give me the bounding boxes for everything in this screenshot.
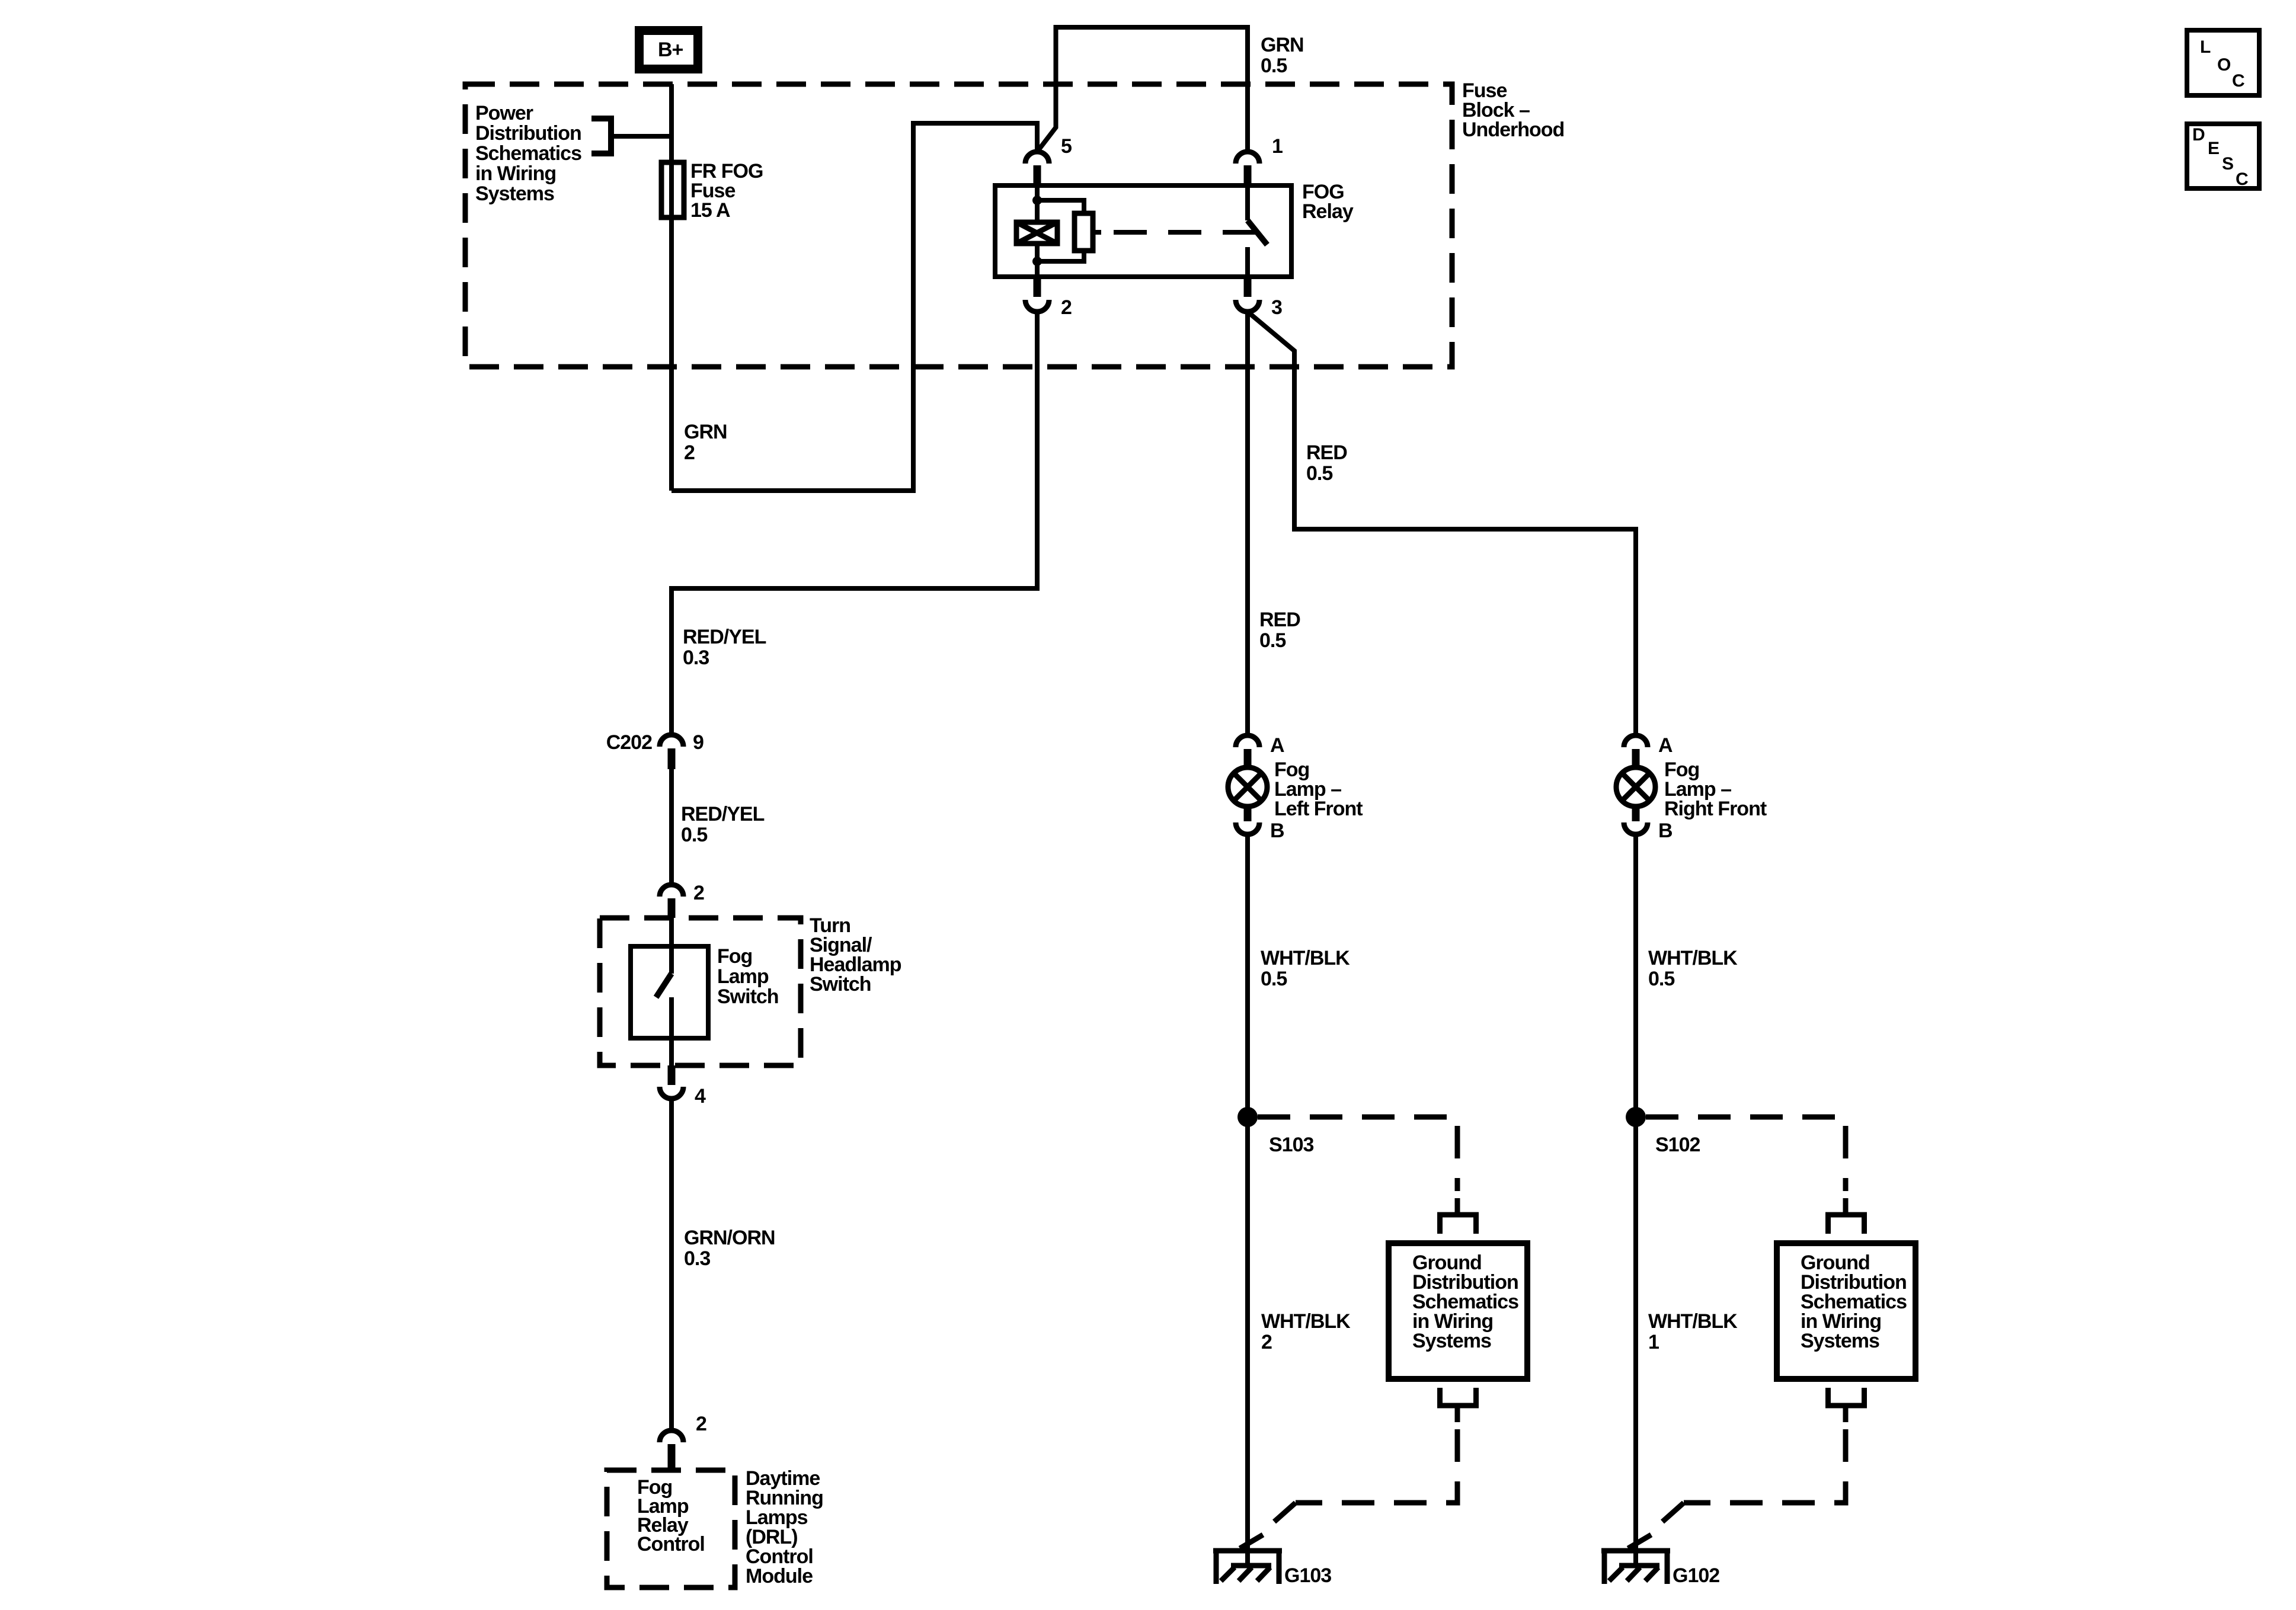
svg-text:C202: C202 [606,731,652,754]
svg-text:Left Front: Left Front [1274,798,1363,820]
wire S102 to ground G102 [1633,1117,1638,1566]
svg-text:Distribution: Distribution [475,122,581,145]
relay box FOG Relay [995,185,1291,277]
fuse FR FOG 15A [661,162,684,217]
pin 2 connector [1034,277,1041,297]
svg-text:GRN: GRN [1261,34,1304,56]
svg-text:0.5: 0.5 [681,824,707,846]
svg-text:0.3: 0.3 [683,646,709,669]
svg-text:1: 1 [1272,135,1283,158]
svg-text:Right Front: Right Front [1664,798,1767,820]
svg-text:Lamp: Lamp [717,965,769,988]
svg-text:GRN: GRN [684,421,727,443]
switch pin 4 connector [668,1065,676,1085]
svg-text:C: C [2232,71,2245,91]
svg-text:15 A: 15 A [690,199,730,222]
wire switch bottom contact (relay) [1245,247,1250,277]
fog lamp left front bulb [1228,767,1267,806]
svg-text:Module: Module [746,1565,813,1587]
wire coil bottom [1035,244,1040,277]
svg-text:2: 2 [696,1413,706,1435]
svg-text:GRN/ORN: GRN/ORN [684,1227,775,1249]
wire pin 4 to DRL module [669,1099,674,1430]
svg-text:O: O [2217,55,2231,75]
ground distribution box (right) [1777,1243,1916,1379]
svg-text:5: 5 [1061,135,1072,158]
dash segment bend (right) [1662,1503,1684,1522]
splice S103 [1237,1107,1258,1127]
wire resistor stub [1093,230,1101,235]
switch blade (fog lamp switch) [656,974,671,997]
wire resistor branch bottom [1037,251,1084,261]
svg-text:S: S [2222,154,2234,174]
svg-text:WHT/BLK: WHT/BLK [1648,947,1738,969]
svg-text:B: B [1270,820,1284,842]
wire switch top (relay) [1245,185,1250,220]
left fog lamp pin B connector [1236,822,1259,834]
svg-text:WHT/BLK: WHT/BLK [1261,947,1350,969]
svg-text:RED/YEL: RED/YEL [683,626,766,648]
wire resistor branch top [1037,200,1084,213]
dashed lead S102 to ground distribution [1646,1117,1846,1191]
svg-text:Systems: Systems [1412,1330,1491,1352]
svg-text:D: D [2192,125,2205,145]
wire B+ feed down through fuse [669,84,674,491]
svg-text:9: 9 [693,731,703,754]
wire switch bottom contact [669,997,674,1065]
wire C202 to switch pin 2 [669,769,674,885]
svg-text:Switch: Switch [717,985,779,1008]
LOC reference box [2187,30,2259,95]
svg-text:L: L [2200,37,2211,57]
bracket below right ground box [1825,1388,1867,1422]
wire right lamp B to splice S102 [1633,834,1638,1117]
dashed lead right ground box to G102 [1684,1429,1846,1503]
wire pin2 to C202 [671,312,1037,735]
wire pin3 to left fog lamp [1245,312,1250,735]
svg-text:2: 2 [1261,1331,1272,1353]
wire left lamp B to splice S103 [1245,834,1250,1117]
svg-text:0.5: 0.5 [1261,55,1287,77]
dashed actuator line [1114,230,1258,235]
svg-text:C: C [2236,169,2249,189]
svg-text:Systems: Systems [1801,1330,1879,1352]
svg-text:G102: G102 [1673,1564,1719,1587]
bracket above left ground box [1437,1198,1479,1234]
svg-text:RED: RED [1259,609,1300,631]
fog lamp switch box [631,946,708,1038]
DESC reference box [2187,124,2259,188]
svg-text:Relay: Relay [1302,200,1354,223]
svg-text:RED: RED [1306,441,1347,464]
svg-text:1: 1 [1648,1331,1659,1353]
pin 5 connector [1025,152,1049,164]
svg-text:B+: B+ [658,39,683,61]
pin 3 connector [1244,277,1252,297]
connector C202 [660,735,683,747]
svg-text:3: 3 [1271,296,1282,319]
power symbol B+ box [639,31,698,69]
switch blade (relay) [1248,220,1267,245]
dash segment crossing wire (left) [1240,1535,1263,1548]
splice S102 [1626,1107,1646,1127]
dashed box DRL control module [607,1470,735,1587]
svg-text:RED/YEL: RED/YEL [681,803,765,825]
right fog lamp pin A connector [1624,735,1648,747]
right fog lamp pin B connector [1624,822,1648,834]
resistor (relay) [1075,213,1093,251]
svg-text:2: 2 [684,441,695,464]
svg-text:Underhood: Underhood [1462,119,1564,141]
bracket to Power Distribution [591,116,611,156]
svg-text:Switch: Switch [810,973,871,996]
dashed lead S103 to ground distribution [1258,1117,1457,1191]
ground distribution box (left) [1389,1243,1527,1379]
svg-text:4: 4 [695,1085,706,1108]
svg-text:S102: S102 [1655,1134,1700,1156]
svg-text:0.3: 0.3 [684,1247,710,1270]
svg-text:0.5: 0.5 [1306,462,1332,485]
wire bracket to B+ feed [611,134,671,139]
bracket above right ground box [1825,1198,1867,1234]
bracket below left ground box [1437,1388,1479,1422]
switch pin 2 connector [660,885,683,897]
svg-text:Power: Power [475,102,533,124]
left fog lamp pin A connector [1236,735,1259,747]
svg-text:WHT/BLK: WHT/BLK [1261,1310,1351,1333]
svg-text:S103: S103 [1269,1134,1313,1156]
wire fuse to relay pin 5 [671,123,1037,491]
pin 1 connector [1236,152,1259,164]
svg-text:2: 2 [693,882,704,904]
dash segment crossing wire (right) [1628,1535,1651,1548]
ground G103 [1213,1548,1282,1584]
wire S103 to ground G103 [1245,1117,1250,1566]
svg-text:G103: G103 [1284,1564,1331,1587]
dashed lead left ground box to G103 [1296,1429,1457,1503]
node coil bottom junction [1032,257,1042,266]
fog lamp right front bulb [1616,767,1655,806]
svg-text:0.5: 0.5 [1261,968,1287,990]
wire pin3 to right fog lamp [1248,312,1636,735]
svg-text:WHT/BLK: WHT/BLK [1648,1310,1738,1333]
svg-text:Systems: Systems [475,183,554,205]
svg-text:E: E [2208,139,2220,158]
svg-text:2: 2 [1061,296,1072,319]
svg-text:Fog: Fog [717,945,752,968]
svg-text:0.5: 0.5 [1259,629,1285,652]
svg-text:in Wiring: in Wiring [475,162,556,185]
wire coil branch top [1035,185,1040,222]
dash segment bend (left) [1274,1503,1296,1522]
node coil top junction [1032,196,1042,205]
svg-text:A: A [1270,734,1284,757]
svg-text:0.5: 0.5 [1648,968,1674,990]
ground G102 [1601,1548,1670,1584]
wire GRN 0.5 jumper pin5 to pin1 [1037,27,1248,152]
dashed box Turn Signal/Headlamp Switch [600,918,801,1065]
svg-text:Schematics: Schematics [475,142,581,165]
svg-text:A: A [1658,734,1673,757]
coil (relay) crossed box [1016,222,1057,244]
svg-text:B: B [1658,820,1673,842]
wire switch top contact [669,918,674,974]
dashed box Fuse Block - Underhood [465,84,1452,367]
svg-text:Control: Control [637,1533,705,1555]
DRL pin 2 connector [660,1430,683,1442]
